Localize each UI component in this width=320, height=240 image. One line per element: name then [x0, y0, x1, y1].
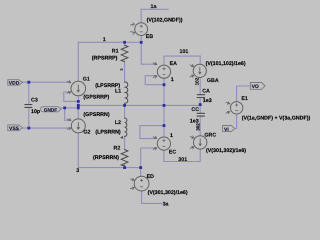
value G2: [83, 112, 109, 118]
capacitor CC: [197, 113, 205, 116]
label 1 top: [103, 37, 106, 43]
svg-text:GBA: GBA: [207, 78, 219, 84]
svg-text:3: 3: [76, 168, 79, 174]
label R1: [112, 48, 119, 54]
svg-text:3a: 3a: [163, 202, 169, 208]
svg-text:301: 301: [178, 157, 187, 163]
value L2: [95, 129, 121, 135]
svg-text:(RPSRRN): (RPSRRN): [93, 155, 119, 161]
label 302 rotated: [195, 123, 200, 131]
label re: [120, 67, 123, 71]
wire C3 top: [28, 82, 30, 104]
resistor R2: [121, 150, 128, 166]
current source GBA: [190, 64, 206, 77]
wire EA control minus loop: [145, 76, 164, 85]
wire G1 control loop: [64, 92, 79, 101]
label EA: [170, 61, 178, 67]
wire main bus node 2: [78, 104, 200, 106]
capacitor C3: [25, 105, 32, 108]
svg-text:L1: L1: [115, 88, 121, 94]
value EB: [147, 18, 183, 24]
label G1: [83, 77, 90, 83]
svg-text:(V(301,302)/1e6): (V(301,302)/1e6): [206, 148, 246, 154]
net flag GNDF: [40, 107, 61, 113]
svg-text:1a: 1a: [151, 4, 157, 10]
label E1: [241, 96, 248, 102]
svg-text:L2: L2: [115, 120, 121, 126]
junction L1 bus: [123, 104, 126, 107]
wire VSS: [23, 127, 68, 129]
wire node 3 bus: [78, 167, 140, 169]
current source GRC: [190, 136, 207, 149]
label EB: [146, 34, 154, 40]
svg-text:EA: EA: [170, 61, 178, 67]
svg-text:re: re: [120, 67, 123, 71]
current source G2: [67, 119, 85, 133]
junction EA bus: [163, 104, 166, 107]
label 101: [180, 49, 189, 55]
voltage source EC: [153, 136, 170, 150]
voltage source ED: [130, 176, 149, 191]
value CA: [203, 98, 212, 104]
current source G1: [67, 81, 86, 96]
label 1a: [151, 4, 157, 10]
svg-text:R2: R2: [114, 145, 121, 151]
svg-text:1: 1: [171, 77, 174, 83]
svg-text:CA: CA: [202, 89, 210, 95]
svg-text:VSS: VSS: [9, 126, 20, 132]
value EA: [171, 77, 174, 83]
svg-text:10p: 10p: [31, 109, 41, 115]
svg-text:E1: E1: [241, 96, 248, 102]
wire node 301: [164, 161, 200, 163]
svg-text:ED: ED: [147, 174, 155, 180]
value CC: [190, 118, 199, 124]
label 301: [178, 157, 187, 163]
wire L2 to R2: [124, 137, 126, 150]
svg-text:VDD: VDD: [9, 80, 20, 86]
wire GRC bottom pin: [199, 149, 201, 161]
voltage source EB: [131, 23, 148, 36]
label G2: [83, 130, 90, 136]
svg-text:C3: C3: [31, 98, 38, 104]
svg-text:GRC: GRC: [204, 132, 216, 138]
svg-text:(RPSRRP): (RPSRRP): [92, 56, 118, 62]
value L1: [95, 83, 120, 89]
wire EC bottom pin: [163, 150, 165, 161]
wire G2 top pin: [77, 105, 79, 119]
value GRC: [206, 148, 246, 154]
label C3: [31, 98, 38, 104]
label ED: [147, 174, 155, 180]
junction EA loop: [163, 83, 166, 86]
port flag VI: [223, 126, 237, 134]
wire EA to EC mid: [163, 105, 165, 137]
svg-text:GNDF: GNDF: [44, 107, 57, 112]
wire ED top pin: [140, 168, 142, 177]
wire CA to bus: [199, 98, 201, 106]
wire R1 top stub: [124, 42, 126, 45]
junction ED node3: [139, 166, 142, 169]
wire G2 bottom pin: [77, 133, 79, 168]
svg-text:EC: EC: [169, 149, 177, 155]
svg-text:EB: EB: [146, 34, 154, 40]
svg-text:(LPSRRN): (LPSRRN): [95, 129, 121, 135]
label CA: [202, 89, 210, 95]
label L2: [115, 120, 121, 126]
wire L1 to bus: [124, 103, 126, 105]
wire GNDF: [61, 107, 78, 109]
label 3a: [163, 202, 169, 208]
label 3: [76, 168, 79, 174]
label L1: [115, 88, 121, 94]
inductor L2: [120, 118, 127, 139]
svg-text:302: 302: [195, 123, 200, 131]
wire ED bottom node 3a: [142, 191, 162, 204]
wire E1 top to VO: [237, 86, 251, 102]
junction node 1 at R1: [123, 41, 126, 44]
wire EC control minus: [141, 148, 156, 168]
label GRC: [204, 132, 216, 138]
wire E1 bottom to VI: [236, 114, 238, 129]
port flag VO: [250, 83, 265, 91]
value G1: [83, 94, 109, 100]
wire GNDF to G2 control: [65, 108, 69, 120]
wire GBA top pin: [199, 56, 201, 64]
wire CC to GRC: [199, 116, 201, 136]
port flag VSS: [8, 125, 23, 132]
svg-text:101: 101: [180, 49, 189, 55]
svg-text:102: 102: [195, 77, 200, 85]
svg-text:1: 1: [170, 133, 173, 139]
inductor L1: [125, 82, 128, 103]
wire VDD: [23, 81, 68, 83]
junction node 1 at EB: [140, 41, 143, 44]
resistor R1: [121, 45, 128, 61]
svg-text:1e3: 1e3: [203, 98, 212, 104]
svg-text:(V(101,102)/1e6): (V(101,102)/1e6): [206, 61, 246, 67]
svg-text:(V(1a,GNDF) + V(3a,GNDF)): (V(1a,GNDF) + V(3a,GNDF)): [242, 115, 311, 121]
wire node 101: [164, 55, 200, 57]
svg-text:R1: R1: [112, 48, 119, 54]
svg-text:(GPSRRN): (GPSRRN): [83, 112, 109, 118]
value E1: [242, 115, 311, 121]
wire GBA bottom to CA: [199, 78, 201, 95]
capacitor CA: [197, 95, 205, 98]
value GBA: [206, 61, 246, 67]
wire EA bottom pin: [163, 78, 165, 105]
label CC: [191, 107, 199, 113]
svg-text:(GPSRRP): (GPSRRP): [83, 94, 109, 100]
svg-text:VO: VO: [252, 84, 259, 90]
wire G1 top pin: [77, 42, 79, 81]
port flag VDD: [8, 80, 23, 87]
label R2: [114, 145, 121, 151]
wire bus to CC: [199, 105, 201, 113]
svg-text:1: 1: [103, 37, 106, 43]
wire R2 bottom: [124, 164, 126, 168]
wire G1 bottom pin: [77, 96, 79, 106]
voltage source E1: [226, 102, 243, 114]
wire EA top pin: [163, 56, 165, 65]
junction VSS C3: [27, 127, 30, 130]
value EC: [170, 133, 173, 139]
value ED: [148, 190, 188, 196]
value C3: [31, 109, 41, 115]
junction G1 loop: [77, 100, 80, 103]
junction R2 node3: [123, 166, 126, 169]
label EC: [169, 149, 177, 155]
wire EB top pin: [140, 9, 142, 22]
wire bus to L2: [124, 105, 126, 118]
svg-text:(V(102,GNDF)): (V(102,GNDF)): [147, 18, 183, 24]
svg-text:VI: VI: [224, 127, 229, 133]
junction EC bracket: [163, 124, 166, 127]
wire node 1a stub: [141, 8, 168, 10]
value R2: [93, 155, 119, 161]
svg-text:G2: G2: [83, 130, 90, 136]
voltage source EA: [153, 62, 170, 78]
junction GNDF drop: [63, 107, 66, 110]
wire C3 bottom: [28, 108, 30, 128]
junction G1 gndf: [77, 107, 80, 110]
junction CA bus: [199, 103, 202, 106]
value R1: [92, 56, 118, 62]
wire EB to EA control: [141, 42, 155, 64]
wire EB bottom pin: [140, 36, 142, 43]
label 102 rotated: [195, 77, 200, 85]
label GBA: [207, 78, 219, 84]
wire R1 to L1: [124, 62, 126, 82]
svg-text:(V(301,302)/1e6): (V(301,302)/1e6): [148, 190, 188, 196]
svg-text:G1: G1: [83, 77, 90, 83]
junction VDD C3: [27, 81, 30, 84]
svg-text:CC: CC: [191, 107, 199, 113]
wire node 1 horizontal: [78, 41, 141, 43]
wire EC control plus bracket: [140, 126, 164, 139]
junction G1 bus: [77, 104, 80, 107]
